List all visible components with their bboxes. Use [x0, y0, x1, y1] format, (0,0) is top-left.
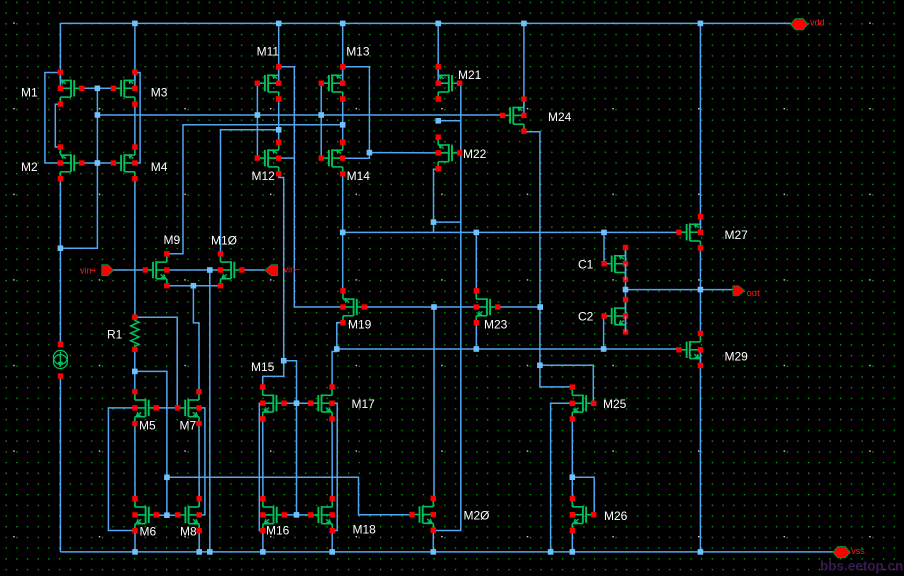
svg-text:M19: M19	[348, 318, 372, 332]
svg-text:vss: vss	[851, 546, 865, 556]
svg-text:M25: M25	[603, 397, 627, 411]
svg-text:M6: M6	[140, 525, 157, 539]
pmos M27	[676, 214, 748, 251]
wire C1 column	[625, 248, 627, 290]
pin out	[733, 286, 745, 296]
svg-text:M23: M23	[484, 318, 508, 332]
svg-text:M12: M12	[252, 169, 276, 183]
junction m2m4-gate	[95, 160, 101, 166]
wire M17.S-M18.D	[331, 419, 333, 499]
wire vdd rail	[60, 22, 791, 24]
junction r1-bot	[132, 369, 138, 375]
junction rail-M27	[698, 21, 704, 27]
wire R1 top line	[135, 317, 177, 408]
wire M29.G line	[337, 348, 679, 350]
wire vdd drop M1	[59, 23, 61, 72]
wire tail to M7.D	[193, 286, 199, 392]
wire M2.D to idc	[59, 179, 61, 344]
wire M16.S to vss	[262, 531, 264, 552]
junction m22d-link	[431, 219, 437, 225]
wire M11.S bulk chain	[279, 67, 343, 307]
wire idc to vss	[59, 376, 61, 552]
wire C2 column	[625, 290, 627, 332]
wire M8.S to vss	[198, 531, 200, 552]
svg-text:M18: M18	[353, 523, 377, 537]
junction tail-node	[58, 245, 64, 251]
wire R1 bottom to M5.D	[134, 349, 136, 392]
wire vdd drop M11	[278, 23, 280, 66]
wire M5.B chain	[108, 408, 135, 531]
junction vss-m20	[431, 549, 437, 555]
svg-text:R1: R1	[107, 328, 123, 342]
wire M22.B link	[369, 152, 438, 154]
junction m15-bias	[281, 358, 287, 364]
wire M25.G branch	[540, 365, 593, 403]
svg-text:M11: M11	[257, 45, 280, 59]
svg-text:M27: M27	[725, 228, 749, 242]
wire M9.D line	[167, 125, 343, 254]
svg-text:M15: M15	[251, 360, 275, 374]
svg-text:M17: M17	[352, 397, 376, 411]
wire vdd drop M3	[134, 23, 136, 72]
wire M21 diode link	[438, 120, 461, 122]
svg-text:M16: M16	[266, 524, 290, 538]
wire M13.G-M14.G	[320, 83, 322, 158]
nmos M19	[340, 288, 371, 331]
junction rail-M21	[435, 21, 441, 27]
wire M10.G to vinm	[242, 269, 265, 271]
svg-text:M26: M26	[604, 509, 628, 523]
wire M10.D line	[221, 130, 279, 254]
wire M9.B-M10.B	[167, 269, 221, 271]
wire M25.B chain	[551, 403, 573, 552]
wire M20.S chain	[433, 83, 461, 530]
wire M19.G row	[364, 306, 476, 308]
svg-text:M2Ø: M2Ø	[464, 509, 490, 523]
pmos C1	[578, 245, 628, 282]
junction vss-bulk	[207, 549, 213, 555]
junction c1g	[601, 230, 607, 236]
junction m23d	[474, 230, 480, 236]
junction vss-m16	[260, 549, 266, 555]
svg-text:M24: M24	[548, 110, 572, 124]
nmos M26	[570, 496, 628, 533]
junction vss-m25b	[548, 549, 554, 555]
wire vinp to M9.G	[111, 269, 146, 271]
wire M15.B chain	[259, 403, 263, 530]
pmos M2	[21, 144, 85, 181]
wire M19.S jog	[337, 323, 343, 349]
wire M11.G-M12.G	[256, 83, 258, 158]
wire bias chain right	[135, 371, 167, 515]
wire M13.D-M14.S	[342, 99, 344, 142]
svg-text:M3: M3	[151, 86, 168, 100]
wire bias line	[97, 114, 503, 116]
wire vdd drop M21	[437, 23, 439, 66]
junction m25s	[570, 474, 576, 480]
junction m25g-t	[537, 363, 543, 369]
wire M14.D to M19.D	[342, 174, 344, 291]
svg-text:M1: M1	[21, 86, 38, 100]
wire M20.D chain	[433, 307, 435, 499]
svg-text:out: out	[747, 288, 761, 299]
wire C1 tie	[625, 264, 627, 280]
junction bias-left	[95, 112, 101, 118]
wire M15.G-M17.G	[284, 402, 311, 404]
pin vdd	[791, 19, 808, 30]
resistor R1	[131, 317, 139, 349]
wire M26.G branch	[572, 477, 594, 515]
wire M17.B chain	[332, 403, 337, 530]
svg-text:vdd: vdd	[810, 18, 825, 28]
junction inpair-bulk	[207, 267, 213, 273]
junction c2g	[601, 346, 607, 352]
wire M23.D up	[475, 232, 477, 291]
wire M29.S to vss	[699, 350, 701, 552]
junction m23s	[474, 346, 480, 352]
svg-text:M5: M5	[139, 419, 156, 433]
wire M23.S down	[475, 323, 477, 349]
svg-text:bbs.eetop.cn.: bbs.eetop.cn.	[820, 558, 904, 573]
junction rail-M11	[276, 21, 282, 27]
nmos M15	[251, 360, 287, 422]
junction m15g	[294, 400, 300, 406]
wire M24.D chain	[524, 132, 572, 387]
pmos M21	[436, 64, 482, 102]
pmos C2	[578, 297, 628, 335]
junction vss-m18	[329, 549, 335, 555]
pin vin-	[265, 265, 278, 276]
junction bias-m13	[318, 112, 324, 118]
wire gate chain mid	[284, 361, 297, 515]
svg-text:vin−: vin−	[284, 265, 301, 275]
wire M18.S to vss	[331, 531, 333, 552]
junction chain-t	[164, 475, 170, 481]
nmos M16	[260, 496, 289, 538]
wire vss rail	[60, 551, 834, 553]
svg-text:M29: M29	[725, 350, 749, 364]
pin vss	[833, 547, 850, 558]
pmos M14	[319, 140, 371, 184]
wire M1.D to M2.S bracket	[55, 104, 60, 147]
nmos M8	[175, 496, 202, 539]
wire chain to M20.G	[167, 477, 413, 514]
wire M5.G-M7.G	[156, 407, 177, 409]
svg-text:M13: M13	[346, 45, 370, 59]
wire M20.S to vss	[432, 531, 434, 552]
nmos M10	[211, 234, 245, 289]
wire gate chain down	[60, 88, 97, 248]
wire M6.G-M8.G	[157, 514, 178, 516]
wire C1.G drop	[603, 232, 605, 263]
pmos M4	[111, 144, 168, 181]
svg-text:M1Ø: M1Ø	[211, 234, 237, 248]
junction m19s-chain	[334, 346, 340, 352]
pmos M24	[500, 96, 572, 133]
wire M5.S-M6.D	[134, 424, 136, 499]
junction chain-m6g	[164, 512, 170, 518]
svg-text:M7: M7	[180, 419, 197, 433]
svg-text:M21: M21	[458, 68, 482, 82]
pmos M3	[111, 69, 168, 106]
wire M25.S-M26.D	[571, 419, 573, 499]
pmos M11	[255, 45, 282, 102]
junction rail-M24	[521, 21, 527, 27]
wire vdd drop M27	[699, 23, 701, 216]
current source I0	[53, 350, 67, 364]
svg-text:vin+: vin+	[80, 265, 97, 275]
wire M6.S to vss	[134, 531, 136, 552]
junction m13s-link	[367, 150, 373, 156]
wire M27.D to M29.D	[699, 248, 701, 334]
svg-text:M14: M14	[347, 169, 371, 183]
nmos M9	[143, 233, 181, 289]
junction rail-M13	[340, 21, 346, 27]
nmos M29	[676, 331, 748, 368]
svg-text:M9: M9	[164, 233, 181, 247]
wire M23.G link	[498, 306, 541, 308]
wire M21G link	[434, 221, 461, 223]
junction vss-m8	[196, 549, 202, 555]
wire M1.S to M2.B bracket	[45, 73, 61, 164]
junction m21col-diode	[435, 118, 441, 124]
junction m19g-m20d	[431, 304, 437, 310]
nmos M5	[132, 389, 159, 433]
junction m27d-out	[698, 287, 704, 293]
wire M13.S bulk chain	[343, 67, 370, 159]
nmos M23	[474, 288, 508, 331]
wire bulk chain to vss	[209, 270, 211, 552]
junction m10d-col	[276, 127, 282, 133]
nmos M7	[175, 389, 202, 433]
wire M15 bias branch	[263, 361, 284, 388]
svg-text:M22: M22	[463, 147, 487, 161]
wire M22.D chain	[434, 169, 439, 232]
nmos M20	[409, 496, 489, 533]
wire M3.D to M4.S	[134, 104, 136, 147]
nmos M25	[570, 384, 627, 421]
wire M15.S-M16.D	[262, 419, 264, 499]
wire M2.G-M4.G	[82, 162, 114, 164]
junction bias-m11	[255, 112, 261, 118]
junction m14d-line	[340, 230, 346, 236]
wire M7.B chain	[199, 408, 205, 515]
wire M26.S to vss	[571, 530, 573, 552]
wire M16.G-M18.G	[284, 514, 311, 516]
junction m23g-t	[537, 304, 543, 310]
wire M27.G line	[343, 231, 679, 233]
wire vdd drop M13	[342, 23, 344, 66]
svg-text:M8: M8	[180, 525, 197, 539]
wire out line	[626, 289, 734, 291]
junction vss-m6	[132, 549, 138, 555]
wire C2 tie	[625, 316, 627, 332]
svg-text:M4: M4	[151, 160, 168, 174]
junction m9d-col	[340, 122, 346, 128]
pmos M13	[319, 45, 370, 102]
svg-text:M2: M2	[21, 160, 38, 174]
svg-text:C2: C2	[578, 310, 594, 324]
junction m16g	[294, 512, 300, 518]
wire vdd drop M24	[523, 23, 525, 99]
junction gate-chain-top	[95, 86, 101, 92]
wire C2.G drop	[603, 316, 605, 349]
wire M1.G-M3.G	[82, 87, 114, 89]
wire M4.D to R1	[134, 179, 136, 317]
junction rail-M3	[132, 21, 138, 27]
pin vin+	[102, 265, 114, 276]
wire M12.B link	[279, 157, 295, 159]
junction vss-m26	[570, 549, 576, 555]
nmos M6	[132, 496, 159, 539]
pmos M12	[252, 140, 282, 184]
wire M11.D-M12.S	[278, 99, 280, 142]
wire M12.D chain	[279, 174, 284, 361]
nmos M17	[308, 384, 375, 421]
wire M3.S to M4.B bracket	[135, 73, 140, 164]
wire M9.S-M10.S	[167, 285, 221, 287]
wire M7.S-M8.D	[198, 424, 200, 499]
junction c1-out	[623, 287, 629, 293]
pmos M22	[436, 135, 487, 172]
junction vss-m29	[698, 549, 704, 555]
pmos M1	[21, 69, 85, 106]
wire M19 chain to M17.D	[332, 349, 337, 388]
nmos M18	[308, 496, 376, 537]
svg-text:C1: C1	[578, 258, 594, 272]
junction inpair-src	[191, 283, 197, 289]
